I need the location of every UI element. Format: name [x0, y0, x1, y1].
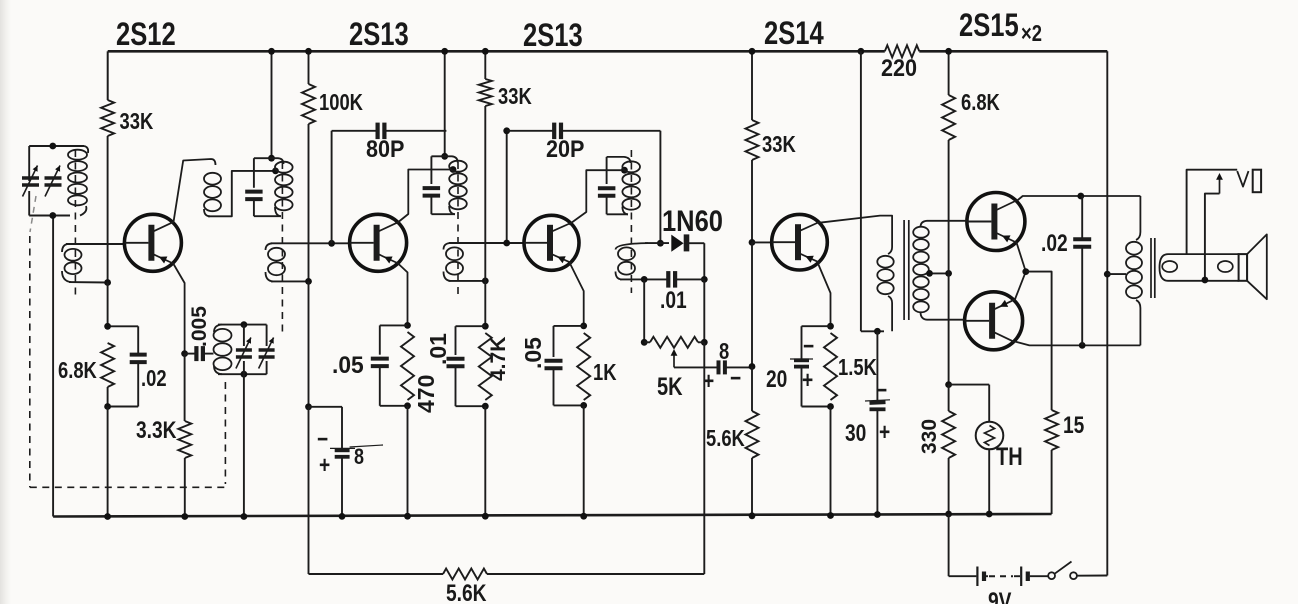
svg-text:8: 8 [719, 339, 729, 364]
resistor R13 220 (supply decoupling, in rail) [885, 45, 920, 57]
svg-text:.02: .02 [1041, 229, 1068, 257]
capacitor C2 .02 (bias bypass) [137, 326, 139, 354]
variable capacitor C4b (oscillator trimmer) [266, 325, 268, 346]
wire: R1 bottom down across base line to coil return [107, 136, 109, 283]
tuning gang link dashed line (left) [30, 196, 36, 232]
wire: Q6 base line [949, 319, 965, 321]
transformer T5 secondary (centre-tapped) [921, 221, 949, 227]
wire: T6 centre tap [1107, 273, 1126, 275]
transformer T6 output, primary [1136, 196, 1140, 240]
node: IFT2 top node [441, 153, 448, 160]
earphone jack J1 [1237, 171, 1248, 187]
wire: pair to ground rail [830, 407, 832, 516]
wire: 20P line [507, 130, 555, 132]
wire: detector line from 20P corner [659, 131, 661, 243]
resistor R3 3.3K (2S12 emitter) [178, 421, 191, 458]
resistor R14 6.8K (output bias upper) [942, 95, 955, 140]
node: pair ground junction [827, 512, 834, 519]
svg-text:.05: .05 [520, 337, 546, 369]
svg-text:8: 8 [354, 445, 364, 469]
svg-text:+: + [879, 418, 890, 446]
wire: R11 to ground rail [751, 458, 753, 516]
wire: bottom ground rail (B+) [53, 514, 1052, 517]
wire: Q5 collector lead [1017, 196, 1140, 201]
svg-text:1K: 1K [593, 360, 617, 385]
inductor T3 IFT2 tuned winding [449, 161, 467, 172]
node: C17 ground junction [874, 511, 881, 518]
node: pot right junction [701, 339, 708, 346]
svg-text:−: − [317, 425, 328, 453]
svg-text:1N60: 1N60 [662, 204, 723, 237]
capacitor C10 .01 (bias bypass) [456, 325, 486, 327]
resistor R8 1K (2S13#2 emitter) [577, 333, 590, 400]
node: rail junction R14 [945, 48, 952, 55]
node: coupling cap junction [749, 363, 756, 370]
wire: Q2 emitter lead [398, 263, 408, 325]
capacitor C17 30uF electrolytic (supply bypass) [876, 331, 878, 401]
wire: Q3 emitter lead [570, 263, 584, 326]
transformer T5 driver, primary [887, 216, 892, 254]
resistor R16 15 (emitter) [1045, 410, 1058, 450]
wire: oscillator tank top [218, 324, 267, 326]
wire: bias node down [948, 273, 950, 384]
wire: R3 to ground rail [184, 458, 186, 517]
node: rail junction R10 [749, 48, 756, 55]
wire: IFT3 tank bottom [607, 213, 628, 215]
node: Q2 emitter pair bottom [404, 402, 411, 409]
wire: tickler bottom to IFT1 tap [208, 171, 273, 216]
svg-text:330: 330 [918, 419, 941, 454]
wire: antenna tank bottom [29, 215, 70, 217]
node: R3 ground junction [181, 513, 188, 520]
wire: bias node to 330 [948, 385, 950, 411]
capacitor C15 8uF electrolytic (AF coupling) [717, 360, 721, 374]
svg-text:33K: 33K [762, 132, 796, 157]
transformer T6 secondary (horizontal) [1160, 254, 1239, 281]
node: TH1 ground junction [986, 511, 993, 518]
variable capacitor C1a (tuning gang, antenna) [22, 176, 39, 179]
inductor L1 antenna coil [84, 146, 88, 153]
wire: IFT1 top feed from rail [271, 51, 273, 158]
capacitor C7 .05 (emitter bypass) [380, 324, 408, 326]
wire: L2 bottom return [69, 281, 108, 283]
wire: rail to R6 [484, 51, 486, 79]
svg-text:4.7K: 4.7K [487, 337, 510, 381]
svg-text:−: − [803, 332, 814, 360]
node: secondary bottom junction [641, 276, 648, 283]
svg-text:.01: .01 [425, 333, 451, 365]
node: 30uF junction [874, 328, 881, 335]
node: AGC bypass junction [305, 403, 312, 410]
capacitor C8 8uF electrolytic (AGC bypass) [309, 406, 343, 408]
node: antenna tank top junction [49, 143, 56, 150]
resistor R7 4.7K (bias lower) [479, 333, 492, 400]
transformer T5 core [903, 220, 905, 320]
node: emitters junction [1022, 268, 1029, 275]
node: thermistor junction [945, 381, 952, 388]
wire: jack plug arrow branch [1205, 194, 1220, 280]
wire: IFT1 tank bottom [254, 215, 281, 217]
svg-text:.05: .05 [332, 351, 364, 378]
svg-text:20: 20 [766, 365, 787, 393]
wire: Q5 base line [949, 220, 968, 222]
node: coupling line top junction [503, 127, 510, 134]
svg-text:15: 15 [1063, 411, 1084, 439]
svg-text:20P: 20P [546, 135, 584, 162]
wire: base coupling line down [506, 131, 508, 243]
node: divider pair top [482, 323, 489, 330]
wire: down to lower bias resistor [751, 367, 753, 412]
node: bias pair top junction [104, 323, 111, 330]
node: R15 ground junction [945, 511, 952, 518]
wire: pair to ground rail [407, 406, 409, 516]
node: secondary return junction [305, 278, 312, 285]
wire: IFT2 secondary bottom [449, 280, 486, 282]
svg-text:2S14: 2S14 [764, 16, 824, 51]
wire: T5 centre tap [928, 272, 949, 274]
inductor T3 secondary (to 2S13 #2 base) [444, 243, 451, 250]
node: L2 return / bias junction [104, 279, 111, 286]
svg-text:−: − [730, 364, 741, 392]
svg-text:6.8K: 6.8K [961, 90, 1000, 115]
resistor R2 6.8K (2S12 bias lower) [101, 343, 114, 387]
node: bias pair bottom junction [104, 403, 111, 410]
jack plug arrow [1219, 176, 1221, 194]
transistor Q6 2S15 (lower) [965, 292, 1023, 350]
wire: TH1 to ground rail [988, 449, 990, 514]
svg-text:3.3K: 3.3K [136, 416, 177, 444]
transistor Q4 2S14 [772, 214, 828, 270]
transistor Q5 2S15 (upper) [967, 193, 1025, 251]
node: Q2 emitter pair top [404, 322, 411, 329]
wire: IFT3 top link [607, 157, 631, 163]
transistor Q1 2S12 [124, 214, 181, 271]
wire: IFT3 secondary bottom [620, 278, 668, 280]
resistor R4 100K (bias) [302, 84, 315, 124]
transistor Q2 2S13 [350, 214, 407, 271]
resistor R15 330 (output bias lower) [942, 411, 955, 458]
wire: R16 to ground rail end [1051, 450, 1053, 514]
wire: R15 to ground rail [948, 458, 950, 514]
node: IFT1 coil tap [272, 168, 279, 175]
transformer T6 core [1150, 238, 1152, 298]
svg-text:+: + [319, 451, 330, 479]
node: R11 ground junction [749, 512, 756, 519]
battery BT1 9V [976, 567, 978, 587]
node: IFT3 coil tap [621, 167, 628, 174]
svg-text:6.8K: 6.8K [58, 358, 97, 383]
wire: R14 down to centre tap junction [948, 140, 950, 273]
wire: Q6 emitter lead [1015, 272, 1026, 301]
transistor Q3 2S13 #2 [524, 215, 579, 270]
wire: decoupled supply down to driver transformer [860, 51, 862, 331]
svg-text:2S15: 2S15 [959, 8, 1019, 43]
wire: volume pot left leg [643, 279, 645, 342]
wire: emitters to 15 ohm [1026, 272, 1052, 410]
svg-text:5K: 5K [657, 373, 683, 401]
node: antenna tank bottom junction [49, 212, 56, 219]
wire: 2S12 base line [66, 243, 125, 245]
svg-text:2S13: 2S13 [349, 17, 409, 52]
node: pot left junction [641, 339, 648, 346]
node: pair ground junction [580, 513, 587, 520]
svg-text:220: 220 [881, 54, 917, 81]
wire: rail to R14 [948, 51, 950, 95]
capacitor C5 (IFT1 tuning) [253, 158, 255, 188]
wire: AGC return line [309, 573, 444, 575]
node: IFT2 secondary return junction [482, 278, 489, 285]
wire: bias line to ground rail [107, 407, 109, 517]
svg-text:1.5K: 1.5K [838, 355, 877, 380]
wire: ferrite core dashed line of L1 [74, 150, 76, 300]
node: output transformer tap junction [1104, 271, 1111, 278]
node: rail junction R6 [482, 48, 489, 55]
node: .02 top junction [1077, 193, 1084, 200]
node: tank ground junction [241, 513, 248, 520]
wire: R10 to base junction [751, 160, 753, 242]
inductor T4 IFT3 tuned winding [622, 161, 640, 172]
wire: bias pair top [107, 283, 109, 327]
wire: IFT2 secondary top to base [449, 242, 525, 244]
svg-text:+: + [802, 366, 813, 394]
wire: AGC line crosses ground rail [308, 407, 310, 574]
wire: IFT1 top link [254, 157, 272, 159]
switch S1 (power) [1030, 575, 1048, 577]
node: .02 bottom junction [1079, 342, 1086, 349]
wire: Q1 emitter lead [174, 264, 185, 354]
wire: IFT3 core dashed line [630, 150, 632, 293]
wire: divider to ground rail [484, 406, 486, 516]
wire: IFT2 top link [431, 155, 444, 157]
wire: ground rail to battery [948, 514, 950, 576]
svg-text:30: 30 [845, 419, 866, 447]
wire: secondary top to diode [645, 242, 669, 244]
capacitor C14 .01 (RF filter) [666, 271, 670, 288]
svg-text:2S13: 2S13 [523, 18, 583, 53]
node: IFT2 coil tap [450, 166, 457, 173]
wire: 2S14 base line [752, 241, 772, 243]
wire: R6 down through crossings [484, 106, 486, 281]
inductor T4 secondary (to detector) [616, 243, 649, 249]
node: emitter / oscillator cap junction [181, 350, 188, 357]
capacitor C9 (IFT2 tuning) [430, 156, 432, 184]
resistor R6 33K (bias) [479, 79, 492, 106]
svg-text:TH: TH [996, 443, 1023, 471]
node: rail junction R4 [305, 48, 312, 55]
wire: detector output to pot right [703, 279, 705, 342]
wire: IFT2 feed from rail [444, 51, 446, 156]
node: rail junction decoupling [858, 48, 865, 55]
svg-text:.005: .005 [188, 306, 211, 347]
wire: base junction to coupling cap [751, 242, 753, 366]
wire: oscillator tank bottom [218, 373, 267, 375]
wire: Q1 collector lead [174, 159, 216, 222]
svg-text:100K: 100K [319, 90, 363, 115]
wire: wiper line [674, 366, 718, 368]
node: Q3 emitter pair bottom [580, 402, 587, 409]
node: detector filter junction [701, 276, 708, 283]
inductor T1 primary (oscillator tickler) [204, 173, 221, 185]
node: rail junction IFT1 [268, 48, 275, 55]
node: divider pair bottom [482, 403, 489, 410]
wire: Q6 collector lead [1015, 342, 1140, 346]
svg-text:5.6K: 5.6K [706, 426, 745, 451]
node: divider ground junction [482, 513, 489, 520]
wire: detector output down [703, 243, 705, 279]
resistor R10 33K (bias) [746, 120, 759, 160]
node: pair ground junction [404, 513, 411, 520]
node: tank bottom junction [241, 371, 248, 378]
svg-text:80P: 80P [366, 135, 404, 162]
svg-text:−: − [876, 376, 887, 404]
wire: R4 down to secondary return [308, 124, 310, 281]
wire: rail to R10 [751, 51, 753, 120]
wire: IFT1 core dashed line [281, 162, 283, 332]
node: 2S13#2 base junction [503, 240, 510, 247]
wire: emitter line down to 3.3K [184, 354, 186, 421]
node: tank top junction [241, 321, 248, 328]
capacitor C11 20P [552, 123, 556, 140]
wire: R6 line down to divider pair [484, 281, 486, 326]
wire: rail to R4 [308, 51, 310, 84]
wire: pair to ground rail [583, 405, 585, 516]
capacitor C12 .05 (emitter bypass) [554, 325, 584, 327]
wire: bias pair bottom [107, 387, 109, 407]
wire: supply vertical on right [1106, 51, 1108, 575]
wire: Q4 collector lead [819, 216, 888, 223]
wire: left end of top rail down to 33K [107, 51, 109, 100]
wire: top supply rail (B-) [108, 50, 885, 53]
variable capacitor C1b (antenna trimmer) [45, 176, 62, 179]
wire: antenna tank left side [28, 146, 30, 181]
wire: antenna tank top [29, 145, 84, 147]
inductor L3 oscillator coil [214, 325, 222, 332]
wire: IFT1 secondary bottom [271, 280, 309, 282]
wire: AGC bias line down [308, 281, 310, 406]
variable capacitor C4a (tuning gang, oscillator) [243, 325, 245, 346]
node: base junction (neutralizing) [328, 240, 335, 247]
wire: Q5 emitter lead [1017, 243, 1026, 272]
wire: IFT2 tank bottom [431, 213, 455, 215]
svg-text:33K: 33K [498, 84, 532, 109]
capacitor C3 .005 (oscillator feedback) [185, 353, 197, 355]
svg-text:5.6K: 5.6K [446, 579, 487, 604]
node: IFT1 top node [268, 155, 275, 162]
wire: 2S13 base line [271, 242, 351, 244]
svg-text:2S12: 2S12 [116, 17, 176, 52]
wire: Q4 emitter lead [818, 264, 831, 327]
capacitor C13 (IFT3 tuning) [606, 157, 608, 184]
resistor R12 1.5K (2S14 emitter) [824, 333, 837, 400]
svg-text:470: 470 [413, 375, 439, 413]
svg-text:.02: .02 [141, 366, 167, 391]
wire: earphone jack branch [1187, 170, 1238, 254]
node: Q4 emitter pair top [827, 323, 834, 330]
wire: neutralizing line up [331, 131, 333, 244]
svg-text:33K: 33K [120, 109, 154, 134]
node: Q4 emitter pair bottom [827, 403, 834, 410]
resistor R11 5.6K (bias lower) [746, 411, 759, 458]
diode D1 1N60 [671, 235, 683, 252]
inductor T2 secondary (to 2S13 base) [266, 243, 273, 250]
potentiometer VR1 5K (volume) [644, 341, 650, 343]
wire: Q3 collector lead [569, 170, 621, 224]
speaker SP1 [1239, 254, 1248, 281]
wire: oscillator core dashed line [224, 382, 226, 484]
wire: oscillator tank to ground rail [243, 374, 245, 516]
node: bias ground junction [104, 513, 111, 520]
wire: neutralizing top line [332, 130, 378, 132]
node: speaker line junction [1202, 277, 1209, 284]
node: rail junction IFT2 [441, 48, 448, 55]
wire: thermistor branch [949, 384, 990, 386]
inductor L2 base coupling coil [62, 244, 68, 252]
node: centre tap bias junction [945, 270, 952, 277]
node: detector input junction [657, 240, 664, 247]
capacitor C16 20uF electrolytic (emitter bypass) [802, 325, 831, 327]
wire: IFT2 core dashed line [457, 162, 459, 295]
inductor T2 IFT1 tuned winding [275, 162, 293, 173]
wire: Q2 collector lead [397, 170, 451, 224]
node: C8 ground junction [339, 513, 346, 520]
node: Q3 emitter pair top [580, 323, 587, 330]
svg-text:9V: 9V [988, 587, 1012, 604]
resistor R5 470 (2S13 emitter) [401, 332, 414, 400]
node: 2S14 base junction [749, 239, 756, 246]
wire: bottom rail left end up to antenna tuning box [52, 216, 54, 517]
svg-text:.01: .01 [660, 286, 687, 314]
node: centre tap [926, 270, 933, 277]
resistor R1 33K (2S12 base bias) [101, 100, 114, 136]
wire: AGC takeoff down [703, 342, 705, 574]
capacitor C6 80P [376, 123, 380, 140]
capacitor C18 .02 (tone/feedback) [1081, 196, 1083, 239]
thermistor TH1 [976, 422, 1004, 450]
svg-text:×2: ×2 [1021, 21, 1042, 46]
resistor R9 5.6K (AGC) [443, 569, 487, 580]
